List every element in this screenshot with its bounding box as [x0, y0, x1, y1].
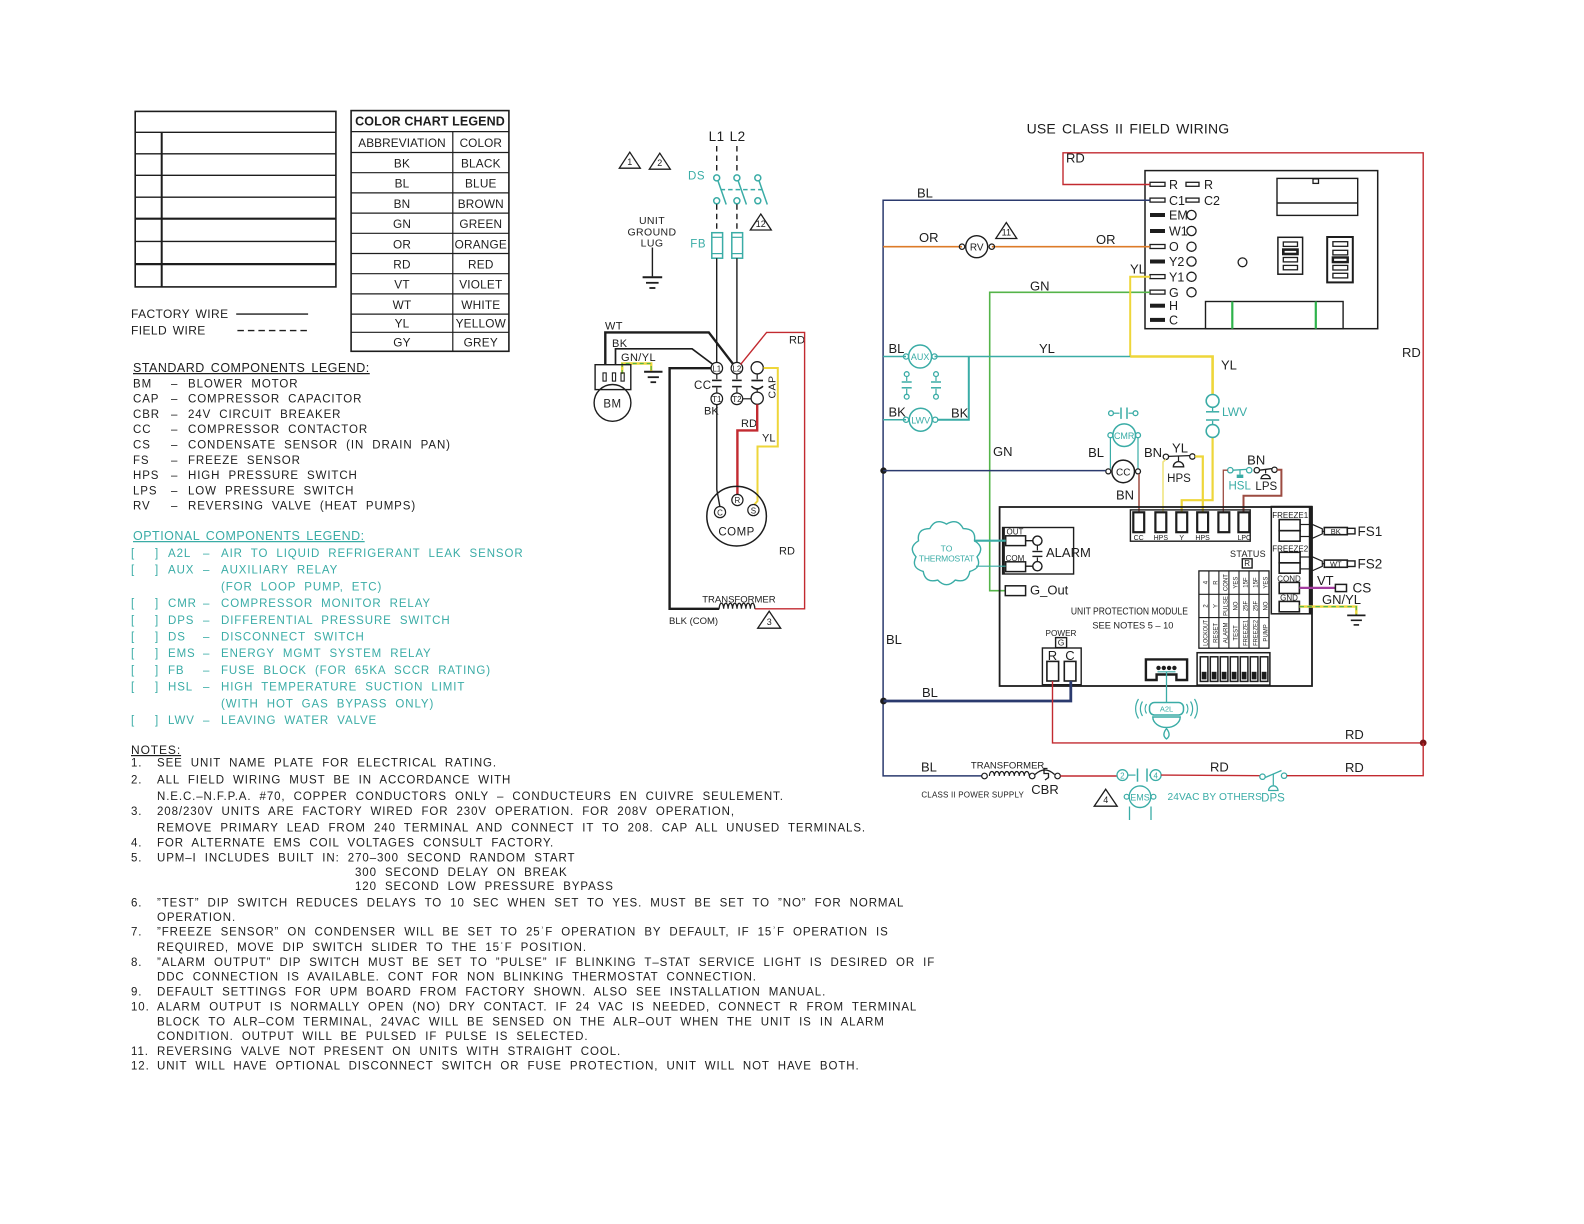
svg-text:2.: 2. [131, 775, 142, 787]
svg-text:–: – [203, 565, 210, 577]
svg-text:ALARM: ALARM [1046, 545, 1091, 560]
svg-text:REVERSING VALVE NOT PRESENT ON: REVERSING VALVE NOT PRESENT ON UNITS WIT… [157, 1046, 621, 1058]
svg-text:BK: BK [394, 157, 410, 171]
svg-text:[: [ [131, 665, 135, 677]
svg-text:BL: BL [922, 685, 938, 700]
svg-text:]: ] [155, 632, 159, 644]
G_Out terminal [1005, 583, 1068, 598]
svg-text:HPS: HPS [1167, 473, 1191, 485]
svg-text:DS: DS [168, 632, 186, 644]
svg-text:G_Out: G_Out [1030, 583, 1069, 598]
svg-text:LPS: LPS [133, 485, 157, 497]
svg-text:H: H [1169, 299, 1178, 313]
svg-text:6.: 6. [131, 897, 142, 909]
ground (GND) [1347, 615, 1365, 625]
terminal R2 [1186, 178, 1213, 192]
svg-text:–: – [171, 485, 178, 497]
svg-text:12.: 12. [131, 1060, 150, 1072]
svg-text:Y: Y [1214, 604, 1220, 608]
terminal W1 [1150, 225, 1196, 239]
wire YL (HPS right to UPM HPS slot) [1195, 457, 1203, 514]
svg-text:RD: RD [1345, 760, 1364, 775]
unit protection module UPM box [1000, 507, 1312, 686]
svg-text:GREY: GREY [464, 336, 498, 350]
wire RD (L2 to transformer secondary right) [741, 332, 805, 608]
svg-text:HPS: HPS [1154, 535, 1169, 542]
high pressure switch HPS [1163, 441, 1195, 485]
svg-text:DPS: DPS [168, 615, 194, 627]
svg-text:CONDITION. OUTPUT WILL BE PULS: CONDITION. OUTPUT WILL BE PULSED IF PULS… [157, 1031, 588, 1043]
warning triangle 11 [996, 223, 1017, 239]
reversing valve RV [959, 236, 994, 258]
svg-text:COMPRESSOR MONITOR RELAY: COMPRESSOR MONITOR RELAY [221, 598, 431, 610]
svg-text:N.E.C.–N.F.P.A. #70, COPPER CO: N.E.C.–N.F.P.A. #70, COPPER CONDUCTORS O… [157, 791, 784, 803]
wire cloud to COM [976, 565, 1006, 567]
standard components legend [133, 361, 451, 513]
svg-text:–: – [171, 501, 178, 513]
wire YL (Y1 to AUX junction) [1130, 262, 1150, 357]
svg-text:]: ] [155, 682, 159, 694]
svg-text:L2: L2 [730, 129, 746, 144]
svg-text:YL: YL [762, 433, 775, 445]
svg-text:T1: T1 [712, 395, 722, 404]
svg-text:Y1: Y1 [1169, 270, 1184, 284]
svg-text:FIELD WIRE: FIELD WIRE [131, 324, 206, 338]
wire cloud to OUT [974, 540, 1006, 542]
svg-text:25F: 25F [1254, 600, 1260, 611]
svg-text:UNIT PROTECTION MODULE: UNIT PROTECTION MODULE [1071, 607, 1188, 618]
svg-text:RED: RED [468, 258, 494, 272]
svg-text:11.: 11. [131, 1046, 149, 1058]
svg-text:BM: BM [133, 378, 152, 390]
svg-text:]: ] [155, 615, 159, 627]
svg-text:24V CIRCUIT BREAKER: 24V CIRCUIT BREAKER [188, 409, 341, 421]
wire YL (LWV valve to UPM Y slot) [1182, 437, 1213, 513]
svg-text:]: ] [155, 715, 159, 727]
svg-text:L1: L1 [709, 129, 725, 144]
svg-text:OR: OR [919, 230, 939, 245]
svg-text:(WITH HOT GAS BYPASS ONLY): (WITH HOT GAS BYPASS ONLY) [221, 698, 434, 710]
wire BL (junction to UPM C) [880, 467, 1106, 473]
svg-text:C1: C1 [1169, 194, 1185, 208]
svg-text:208/230V UNITS ARE FACTORY WIR: 208/230V UNITS ARE FACTORY WIRED FOR 230… [157, 806, 735, 818]
alarm output block [1003, 528, 1091, 575]
svg-text:CC: CC [694, 380, 712, 392]
svg-text:COLOR CHART LEGEND: COLOR CHART LEGEND [355, 115, 505, 129]
svg-text:R: R [1169, 178, 1178, 192]
svg-text:LWV: LWV [911, 415, 930, 425]
warning triangle 3 [758, 611, 781, 628]
svg-text:PUMP: PUMP [1264, 624, 1270, 641]
svg-text:G: G [1169, 286, 1179, 300]
svg-text:L1: L1 [712, 364, 721, 373]
wire RD (CAP to COMP R) [737, 404, 757, 494]
svg-text:WHITE: WHITE [461, 298, 500, 312]
terminal C2 [1186, 194, 1220, 208]
svg-text:–: – [171, 409, 178, 421]
to thermostat cloud [912, 522, 980, 585]
wire RD (power R to right bus) [1053, 681, 1427, 746]
svg-text:”TEST” DIP SWITCH REDUCES DELA: ”TEST” DIP SWITCH REDUCES DELAYS TO 10 S… [157, 897, 904, 909]
factory wire legend [131, 307, 308, 321]
notes [131, 743, 935, 1072]
UPM input connector strip [1130, 510, 1251, 542]
svg-text:15F: 15F [1254, 577, 1260, 588]
wire BN (CC coil to UPM CC slot) [1138, 474, 1140, 513]
svg-text:LOW PRESSURE SWITCH: LOW PRESSURE SWITCH [188, 485, 354, 497]
svg-text:CLASS II POWER SUPPLY: CLASS II POWER SUPPLY [921, 790, 1024, 799]
svg-text:Y2: Y2 [1169, 255, 1184, 269]
svg-text:YELLOW: YELLOW [456, 317, 507, 331]
board dip block 2 [1327, 237, 1353, 282]
svg-text:2: 2 [657, 158, 662, 168]
svg-text:CS: CS [133, 440, 151, 452]
wire VT + condensate sensor CS [1299, 573, 1371, 595]
terminal C1 [1150, 194, 1185, 208]
svg-text:[: [ [131, 715, 135, 727]
svg-text:[: [ [131, 632, 135, 644]
wire RD (DPS to right bus) [1287, 743, 1423, 776]
FREEZE1 terminal [1272, 511, 1312, 541]
svg-text:2: 2 [1120, 771, 1125, 780]
svg-text:HSL: HSL [168, 682, 193, 694]
svg-text:RD: RD [1210, 760, 1229, 775]
svg-text:10.: 10. [131, 1002, 150, 1014]
svg-text:[: [ [131, 615, 135, 627]
svg-text:BLACK: BLACK [461, 157, 501, 171]
svg-text:FS1: FS1 [1358, 524, 1383, 539]
svg-text:NO: NO [1264, 601, 1270, 610]
warning triangle 1 [619, 152, 640, 168]
svg-text:AUX: AUX [168, 565, 194, 577]
wire YL (CAP to COMP S) [754, 368, 778, 505]
svg-text:BK: BK [889, 405, 907, 420]
svg-text:FACTORY WIRE: FACTORY WIRE [131, 307, 229, 321]
svg-text:W1: W1 [1169, 225, 1188, 239]
svg-text:YL: YL [395, 317, 410, 331]
svg-text:–: – [171, 394, 178, 406]
high temperature suction limit HSL [1228, 468, 1252, 493]
svg-text:BL: BL [1088, 445, 1104, 460]
svg-text:FREEZE1: FREEZE1 [1244, 619, 1250, 646]
svg-text:BM: BM [603, 399, 621, 411]
title: use class II field wiring [1027, 121, 1230, 137]
svg-text:]: ] [155, 665, 159, 677]
svg-text:–: – [171, 440, 178, 452]
UPM dip switch setting table [1199, 571, 1270, 648]
svg-text:24VAC BY OTHERS: 24VAC BY OTHERS [1168, 792, 1263, 803]
svg-text:LWV: LWV [1222, 405, 1247, 419]
UPM power terminals [1042, 629, 1081, 685]
svg-text:HPS: HPS [1195, 535, 1210, 542]
svg-text:–: – [203, 648, 210, 660]
svg-text:CAP: CAP [767, 375, 779, 398]
svg-text:EM: EM [1169, 209, 1188, 223]
svg-text:GY: GY [393, 336, 410, 350]
svg-text:LEAVING WATER VALVE: LEAVING WATER VALVE [221, 715, 377, 727]
svg-text:–: – [203, 665, 210, 677]
compressor contactor coil CC [1106, 460, 1141, 503]
svg-text:RD: RD [789, 335, 805, 347]
svg-text:OR: OR [393, 237, 411, 251]
svg-text:BN: BN [394, 197, 411, 211]
board relay block [1277, 178, 1358, 215]
svg-text:RD: RD [779, 546, 795, 558]
wire YL (HPS left to UPM HPS slot) [1163, 460, 1166, 514]
svg-text:REQUIRED, MOVE DIP SWITCH SLID: REQUIRED, MOVE DIP SWITCH SLIDER TO THE … [157, 942, 587, 954]
svg-text:SEE NOTES 5 – 10: SEE NOTES 5 – 10 [1092, 621, 1173, 631]
field wire legend [131, 324, 308, 338]
board pilot hole [1238, 258, 1247, 267]
svg-text:EMS: EMS [168, 648, 196, 660]
svg-text:BL: BL [886, 632, 902, 647]
svg-text:CONT: CONT [1224, 574, 1230, 591]
thermostat connection board [1145, 171, 1378, 329]
svg-text:DEFAULT SETTINGS FOR UPM BOARD: DEFAULT SETTINGS FOR UPM BOARD FROM FACT… [157, 987, 826, 999]
svg-text:OR: OR [1096, 232, 1116, 247]
svg-text:THERMOSTAT: THERMOSTAT [919, 554, 974, 564]
transformer (primary, left diagram) [702, 595, 776, 609]
svg-text:–: – [203, 715, 210, 727]
svg-text:120 SECOND LOW PRESSURE BYPASS: 120 SECOND LOW PRESSURE BYPASS [355, 881, 614, 893]
EMS relay [1117, 769, 1161, 821]
disconnect switch DS [688, 171, 767, 232]
svg-text:–: – [171, 470, 178, 482]
svg-text:CMR: CMR [168, 598, 197, 610]
GND terminal [1279, 593, 1299, 611]
svg-text:[: [ [131, 565, 135, 577]
svg-text:DIFFERENTIAL PRESSURE SWITCH: DIFFERENTIAL PRESSURE SWITCH [221, 615, 451, 627]
svg-text:LPC: LPC [1237, 535, 1251, 542]
svg-text:CC: CC [133, 424, 151, 436]
svg-text:WT: WT [1330, 560, 1342, 569]
svg-text:CC: CC [1116, 467, 1130, 478]
svg-text:–: – [171, 378, 178, 390]
svg-text:[: [ [131, 648, 135, 660]
svg-text:C2: C2 [1204, 194, 1220, 208]
svg-text:Y: Y [1179, 535, 1184, 542]
svg-text:]: ] [155, 548, 159, 560]
leaving water valve relay LWV [883, 357, 969, 432]
COND terminal [1277, 574, 1301, 593]
svg-text:BN: BN [1247, 452, 1265, 467]
terminal Y1 [1150, 270, 1196, 284]
svg-text:O: O [1169, 240, 1179, 254]
CMR contact [1109, 408, 1138, 419]
svg-text:R: R [1048, 648, 1057, 663]
svg-text:FS2: FS2 [1358, 556, 1383, 571]
svg-text:CC: CC [1134, 535, 1144, 542]
svg-text:WT: WT [393, 298, 412, 312]
svg-text:ENERGY MGMT SYSTEM RELAY: ENERGY MGMT SYSTEM RELAY [221, 648, 432, 660]
circuit breaker CBR [1031, 769, 1060, 798]
svg-text:COMPRESSOR CAPACITOR: COMPRESSOR CAPACITOR [188, 394, 362, 406]
AUX contact 2 [931, 372, 941, 399]
warning triangle 2 [649, 153, 670, 169]
svg-text:]: ] [155, 598, 159, 610]
UPM dip switches [1197, 653, 1270, 685]
wire BL (C1 to left bus) [883, 186, 1150, 776]
svg-text:RD: RD [1345, 727, 1364, 742]
svg-text:15F: 15F [1244, 577, 1250, 588]
svg-text:]: ] [155, 565, 159, 577]
svg-text:25F: 25F [1244, 600, 1250, 611]
svg-text:BLUE: BLUE [465, 177, 497, 191]
svg-text:YL: YL [1172, 441, 1188, 456]
svg-text:4.: 4. [131, 838, 142, 850]
compressor monitor relay CMR [1088, 424, 1162, 469]
terminal G [1150, 286, 1196, 300]
svg-text:DDC CONNECTION IS AVAILABLE. C: DDC CONNECTION IS AVAILABLE. CONT FOR NO… [157, 971, 757, 983]
svg-text:S: S [751, 506, 756, 515]
leaving water valve LWV (valve) [1206, 395, 1247, 438]
svg-text:YES: YES [1264, 577, 1270, 589]
wire BN (HSL to UPM slot) [1223, 470, 1227, 513]
terminal C [1150, 313, 1178, 327]
svg-text:R: R [1214, 580, 1220, 585]
svg-text:VT: VT [1317, 573, 1334, 588]
svg-text:ALARM: ALARM [1224, 623, 1230, 644]
terminal H [1150, 299, 1178, 313]
svg-text:HIGH TEMPERATURE SUCTION LIMIT: HIGH TEMPERATURE SUCTION LIMIT [221, 682, 465, 694]
svg-text:1: 1 [627, 157, 632, 167]
svg-text:NO: NO [1234, 601, 1240, 610]
svg-text:BL: BL [395, 177, 410, 191]
wire BL (power C thick) [880, 681, 1071, 704]
svg-text:9.: 9. [131, 987, 142, 999]
wire L1 to contactor [716, 258, 718, 362]
compressor capacitor CAP [743, 362, 779, 405]
svg-text:G: G [1058, 638, 1065, 648]
svg-text:[: [ [131, 598, 135, 610]
freeze sensor FS1 [1312, 524, 1382, 539]
wire GN (G circuit) [990, 278, 1150, 590]
wire YL teal (AUX line) [883, 341, 1130, 357]
svg-text:R: R [1244, 559, 1250, 568]
svg-text:VIOLET: VIOLET [459, 278, 502, 292]
svg-text:LOCKOUT: LOCKOUT [1204, 620, 1210, 646]
svg-text:FUSE BLOCK (FOR 65KA SCCR RATI: FUSE BLOCK (FOR 65KA SCCR RATING) [221, 665, 491, 677]
warning triangle 12 [750, 214, 771, 230]
svg-text:BL: BL [921, 759, 937, 774]
svg-text:BLOCK TO ALR–COM TERMINAL, 24V: BLOCK TO ALR–COM TERMINAL, 24VAC WILL BE… [157, 1016, 885, 1028]
svg-text:]: ] [155, 648, 159, 660]
UPM freeze sensor panel [1271, 507, 1312, 614]
svg-text:ALARM OUTPUT IS NORMALLY OPEN: ALARM OUTPUT IS NORMALLY OPEN (NO) DRY C… [157, 1002, 917, 1014]
svg-text:L2: L2 [732, 364, 741, 373]
svg-text:FREEZE1: FREEZE1 [1272, 511, 1309, 520]
svg-text:BL: BL [889, 341, 905, 356]
svg-text:FREEZE2: FREEZE2 [1254, 619, 1260, 646]
node L2 [730, 129, 746, 175]
svg-text:3: 3 [767, 617, 772, 627]
svg-text:FS: FS [133, 455, 150, 467]
wire BLK (COM) [669, 368, 719, 627]
svg-text:C: C [1169, 313, 1178, 327]
terminal Y2 [1150, 255, 1196, 269]
svg-text:TRANSFORMER: TRANSFORMER [971, 760, 1045, 771]
svg-text:UNIT WILL HAVE OPTIONAL DISCON: UNIT WILL HAVE OPTIONAL DISCONNECT SWITC… [157, 1060, 860, 1072]
svg-text:RD: RD [741, 418, 757, 430]
svg-text:[: [ [131, 682, 135, 694]
svg-text:LPS: LPS [1255, 481, 1277, 493]
svg-text:USE CLASS II FIELD WIRING: USE CLASS II FIELD WIRING [1027, 121, 1230, 137]
svg-text:LWV: LWV [168, 715, 195, 727]
svg-text:FOR ALTERNATE EMS COIL VOLTAGE: FOR ALTERNATE EMS COIL VOLTAGES CONSULT … [157, 838, 554, 850]
svg-text:GROUND: GROUND [627, 226, 676, 238]
svg-text:FB: FB [168, 665, 185, 677]
svg-text:DPS: DPS [1261, 793, 1285, 805]
freeze sensor FS2 [1312, 556, 1382, 571]
svg-text:UNIT: UNIT [639, 215, 665, 227]
svg-text:CBR: CBR [133, 409, 160, 421]
svg-text:”ALARM OUTPUT” DIP SWITCH MUST: ”ALARM OUTPUT” DIP SWITCH MUST BE SET TO… [157, 957, 935, 969]
svg-text:8.: 8. [131, 957, 142, 969]
svg-text:UPM–I INCLUDES BUILT IN: 270–: UPM–I INCLUDES BUILT IN: 270–300 SECOND … [157, 852, 575, 864]
svg-text:GN/YL: GN/YL [621, 352, 656, 364]
svg-text:VT: VT [394, 278, 409, 292]
wire RD (EMS to DPS) [1161, 760, 1260, 776]
svg-text:BL: BL [917, 186, 933, 201]
terminal R [1150, 178, 1178, 192]
svg-text:–: – [203, 682, 210, 694]
svg-text:BK: BK [951, 405, 969, 420]
svg-text:NOTES:: NOTES: [131, 743, 181, 757]
terminal EM [1150, 209, 1196, 223]
board dip block 1 [1278, 237, 1303, 274]
svg-text:OPTIONAL COMPONENTS LEGEND:: OPTIONAL COMPONENTS LEGEND: [133, 529, 365, 543]
svg-text:BROWN: BROWN [458, 197, 504, 211]
svg-text:BLOWER MOTOR: BLOWER MOTOR [188, 378, 298, 390]
color chart legend table [351, 111, 509, 352]
svg-text:5.: 5. [131, 852, 142, 864]
svg-text:YL: YL [1039, 341, 1055, 356]
svg-text:ORANGE: ORANGE [455, 237, 507, 251]
optional components legend [131, 529, 524, 727]
svg-text:R: R [735, 496, 741, 505]
warning triangle 4 [1094, 789, 1117, 806]
svg-text:11: 11 [1002, 227, 1011, 237]
fuse block FB [690, 233, 742, 259]
svg-text:YL: YL [1130, 262, 1146, 277]
svg-text:GN: GN [1030, 278, 1050, 293]
wire WT [605, 321, 733, 365]
svg-text:300 SECOND DELAY ON BREAK: 300 SECOND DELAY ON BREAK [355, 867, 568, 879]
svg-text:3.: 3. [131, 806, 142, 818]
wire RD (CBR to EMS) [1060, 775, 1117, 777]
svg-text:”FREEZE SENSOR” ON CONDENSER W: ”FREEZE SENSOR” ON CONDENSER WILL BE SET… [157, 927, 889, 939]
svg-text:BK: BK [1331, 527, 1341, 536]
svg-text:GREEN: GREEN [459, 217, 502, 231]
wire YL (junction to LWV valve) [1130, 357, 1237, 395]
svg-text:RV: RV [970, 243, 984, 254]
svg-text:CAP: CAP [133, 394, 159, 406]
terminal O [1150, 240, 1196, 254]
svg-text:REVERSING VALVE (HEAT PUMPS): REVERSING VALVE (HEAT PUMPS) [188, 501, 416, 513]
compressor COMP [707, 486, 767, 546]
svg-text:HSL: HSL [1229, 481, 1252, 493]
svg-text:7.: 7. [131, 927, 142, 939]
svg-text:CONDENSATE SENSOR (IN DRAIN PA: CONDENSATE SENSOR (IN DRAIN PAN) [188, 440, 451, 452]
FREEZE2 terminal [1272, 544, 1312, 573]
svg-text:(FOR LOOP PUMP, ETC): (FOR LOOP PUMP, ETC) [221, 581, 382, 593]
wire BK (T1 to COMP C) [704, 405, 720, 507]
svg-text:GN/YL: GN/YL [1322, 592, 1361, 607]
24VAC BY OTHERS label [1168, 792, 1263, 803]
wire BK [612, 338, 713, 365]
svg-text:R: R [1204, 178, 1213, 192]
svg-text:REMOVE PRIMARY LEAD FROM 240 T: REMOVE PRIMARY LEAD FROM 240 TERMINAL AN… [157, 823, 866, 835]
